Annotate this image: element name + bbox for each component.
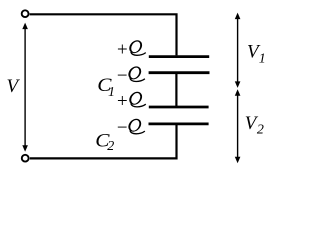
svg-text:+: + — [116, 39, 129, 60]
svg-text:2: 2 — [107, 139, 114, 154]
svg-text:−: − — [116, 66, 129, 87]
svg-text:1: 1 — [259, 52, 266, 67]
svg-text:2: 2 — [257, 123, 264, 138]
svg-text:1: 1 — [108, 85, 115, 100]
svg-text:−: − — [116, 117, 129, 138]
svg-text:+: + — [116, 91, 129, 112]
